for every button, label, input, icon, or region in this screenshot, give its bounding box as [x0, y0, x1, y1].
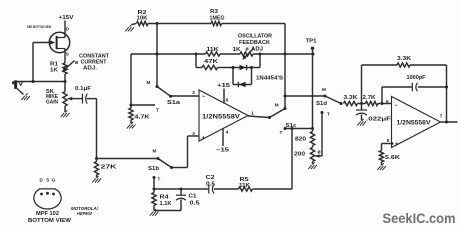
svg-text:1: 1 — [251, 110, 254, 115]
svg-text:S: S — [46, 177, 49, 182]
svg-text:FEEDBACK: FEEDBACK — [239, 40, 270, 46]
svg-text:6: 6 — [386, 99, 389, 104]
svg-text:T: T — [327, 112, 330, 117]
svg-text:2: 2 — [192, 90, 195, 95]
svg-text:G: G — [52, 177, 56, 182]
svg-text:11K: 11K — [239, 183, 250, 189]
svg-text:1N4454'S: 1N4454'S — [256, 76, 284, 82]
svg-text:S1a: S1a — [167, 100, 180, 106]
svg-text:OSCILLATOR: OSCILLATOR — [238, 34, 272, 40]
svg-text:C1: C1 — [189, 194, 197, 200]
svg-text:S1d: S1d — [316, 101, 327, 107]
svg-text:M: M — [153, 149, 157, 154]
svg-text:10K: 10K — [137, 15, 148, 21]
svg-text:27K: 27K — [101, 164, 118, 170]
svg-text:0.1μF: 0.1μF — [75, 86, 91, 92]
svg-text:1/2N5558V: 1/2N5558V — [397, 121, 431, 127]
svg-text:R3: R3 — [210, 9, 218, 15]
svg-text:+: + — [202, 136, 206, 142]
svg-text:5: 5 — [387, 138, 390, 143]
svg-text:11K: 11K — [207, 47, 220, 53]
svg-text:GAIN: GAIN — [46, 99, 58, 105]
svg-text:3.3K: 3.3K — [397, 56, 412, 62]
svg-text:T: T — [158, 176, 161, 181]
svg-text:47K: 47K — [204, 59, 219, 65]
svg-text:4: 4 — [226, 129, 229, 134]
svg-text:8: 8 — [226, 97, 229, 102]
svg-text:3.3K: 3.3K — [344, 95, 359, 101]
svg-text:S1b: S1b — [148, 166, 159, 172]
svg-text:HEP802: HEP802 — [77, 211, 93, 216]
svg-text:SEE BOTTOM VIEW: SEE BOTTOM VIEW — [27, 25, 51, 29]
svg-text:+15V: +15V — [59, 15, 75, 21]
svg-text:4.7K: 4.7K — [135, 114, 151, 120]
svg-text:S1c: S1c — [286, 123, 297, 129]
svg-text:SeekIC.com: SeekIC.com — [383, 210, 456, 226]
svg-text:C2: C2 — [206, 175, 215, 181]
svg-text:T: T — [156, 108, 159, 113]
svg-text:.022μF: .022μF — [366, 117, 391, 123]
svg-text:1000pF: 1000pF — [407, 75, 426, 81]
svg-text:S: S — [66, 51, 69, 56]
svg-text:0.5: 0.5 — [190, 201, 200, 207]
svg-text:−: − — [202, 94, 206, 100]
svg-text:M: M — [147, 80, 151, 85]
svg-text:200: 200 — [294, 152, 305, 158]
svg-text:1K: 1K — [233, 47, 241, 53]
svg-text:1MEG: 1MEG — [210, 15, 225, 21]
svg-text:5.6K: 5.6K — [385, 155, 401, 161]
svg-text:7: 7 — [440, 114, 443, 119]
svg-text:1/2N5558V: 1/2N5558V — [202, 114, 240, 120]
svg-text:−15: −15 — [216, 148, 229, 154]
svg-text:+: + — [395, 142, 399, 148]
svg-text:ADJ.: ADJ. — [83, 65, 98, 71]
svg-text:+15: +15 — [217, 83, 230, 89]
svg-text:1K: 1K — [50, 68, 58, 74]
svg-text:820: 820 — [295, 137, 306, 143]
svg-text:MPF 102: MPF 102 — [36, 211, 59, 217]
svg-text:3: 3 — [192, 131, 195, 136]
svg-text:M: M — [322, 87, 326, 92]
svg-text:R4: R4 — [160, 195, 169, 201]
svg-text:BOTTOM VIEW: BOTTOM VIEW — [28, 218, 71, 224]
svg-text:1.1K: 1.1K — [160, 201, 172, 207]
svg-text:T: T — [280, 130, 283, 135]
svg-text:−: − — [394, 103, 398, 109]
svg-text:2.7K: 2.7K — [363, 95, 376, 101]
svg-text:0.5: 0.5 — [206, 182, 215, 188]
svg-text:M: M — [275, 103, 279, 108]
svg-text:TP1: TP1 — [306, 38, 317, 44]
